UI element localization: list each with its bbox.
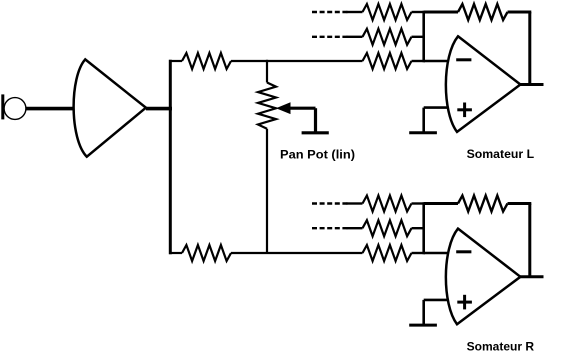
- svg-text:Somateur R: Somateur R: [467, 341, 535, 353]
- svg-text:Pan Pot (lin): Pan Pot (lin): [280, 150, 355, 162]
- svg-text:Somateur L: Somateur L: [467, 149, 534, 161]
